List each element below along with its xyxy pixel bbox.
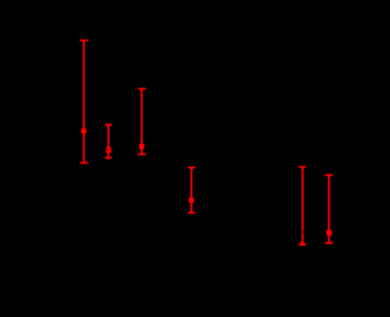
error bar 4 top cap xyxy=(188,167,195,169)
error bar 5 bottom cap xyxy=(299,244,306,246)
error bar 4 bottom cap xyxy=(188,212,195,214)
error bar 6 top cap xyxy=(325,174,333,176)
error bar 2 top cap xyxy=(105,124,112,126)
error bar 5 vertical line xyxy=(302,167,304,245)
error bar 2 vertical line xyxy=(107,125,109,158)
error bar 6 vertical line xyxy=(328,175,330,243)
error bar 1 bottom cap xyxy=(80,162,88,164)
data point 4 filled square marker xyxy=(189,198,194,203)
error bar 4 vertical line xyxy=(190,168,192,213)
data point 3 filled square marker xyxy=(139,144,144,149)
data point 2 marker dark hole xyxy=(107,149,108,151)
error bar 5 top cap xyxy=(299,166,306,168)
data point 6 filled square marker xyxy=(326,230,332,236)
error bar 1 top cap xyxy=(80,39,88,41)
error bar 6 bottom cap xyxy=(325,242,333,244)
data point 1 filled square marker xyxy=(81,128,86,133)
data point 5 filled triangle marker xyxy=(299,240,305,245)
error bar 1 vertical line xyxy=(83,40,85,162)
error bar 3 top cap xyxy=(138,88,146,90)
error bar 3 bottom cap xyxy=(138,153,146,155)
error bar 3 vertical line xyxy=(141,89,143,154)
small dark notch on bar 5 line xyxy=(302,231,304,233)
data point 2 open square marker xyxy=(106,147,111,153)
error bar 2 bottom cap xyxy=(105,157,112,159)
